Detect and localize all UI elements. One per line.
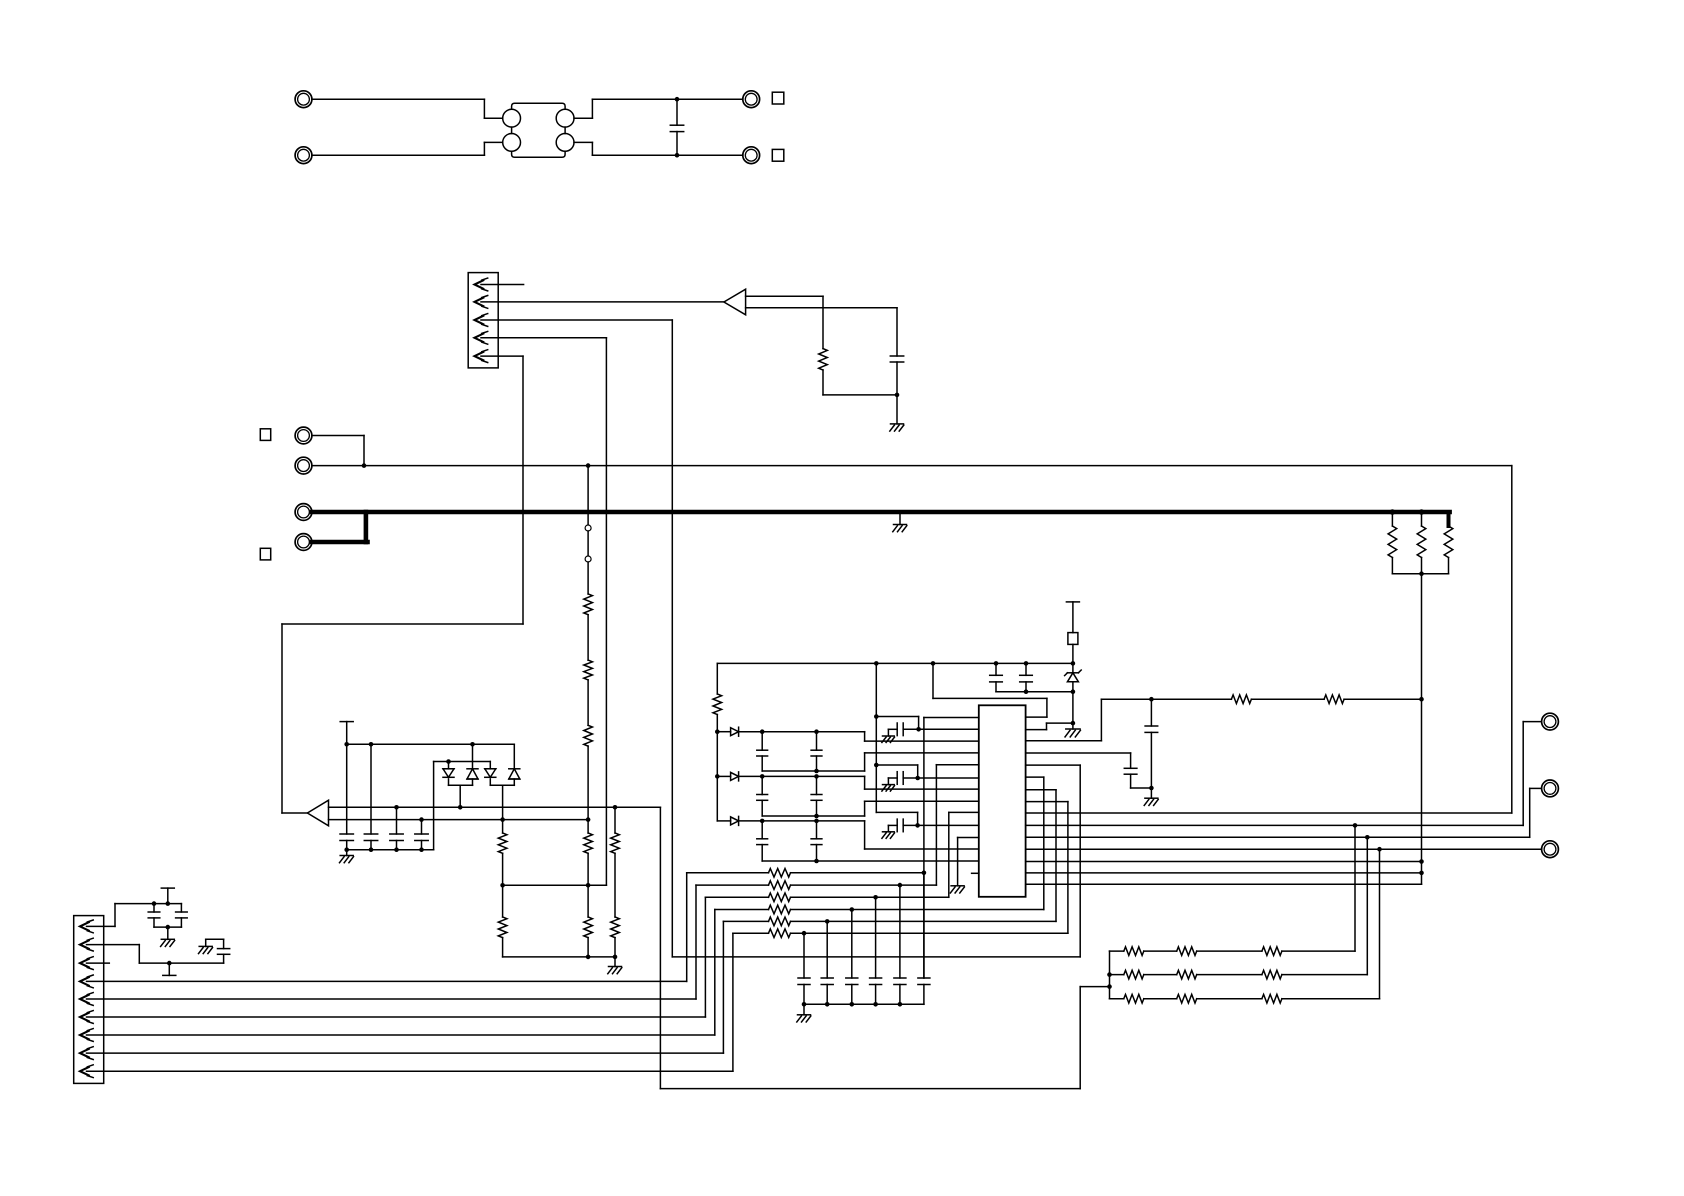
resistor R52b: [1144, 994, 1197, 1003]
capacitor CA: [811, 732, 822, 771]
rail wire: [347, 743, 515, 745]
node: [1149, 786, 1154, 791]
wire: [370, 841, 372, 850]
resistor R51b: [1144, 970, 1197, 979]
capacitor C11: [340, 834, 353, 841]
connector terminal J2-1: [743, 91, 760, 108]
wire: [1026, 753, 1131, 768]
node: [1365, 835, 1370, 840]
node: [470, 742, 475, 747]
node: [166, 901, 171, 906]
jumper circle: [585, 556, 591, 562]
ground: [882, 736, 895, 743]
resistor R20: [1388, 526, 1397, 558]
wire: [903, 728, 918, 730]
wire: [865, 776, 979, 789]
wire: [346, 850, 348, 856]
node: [458, 805, 463, 810]
wire: [346, 744, 348, 834]
resistor R51a: [1110, 970, 1144, 979]
connector terminal J4-2: [295, 534, 312, 551]
resistor R21: [1417, 526, 1426, 558]
node: [1353, 823, 1358, 828]
wire: [489, 779, 491, 785]
node: [825, 1002, 830, 1007]
wire row2: [791, 765, 979, 885]
capacitor C3x: [821, 921, 833, 1004]
resistor R31: [687, 869, 791, 878]
pin arrow: [475, 296, 488, 309]
wire: [919, 728, 979, 730]
node: [152, 901, 157, 906]
wire: [614, 957, 616, 967]
pin arrow: [80, 938, 93, 951]
wire: [1421, 558, 1423, 574]
node: [1377, 847, 1382, 852]
wire: [1523, 722, 1541, 826]
capacitor C42: [897, 772, 903, 785]
wire: [739, 775, 865, 777]
resistor R15: [584, 833, 593, 853]
node: [613, 955, 618, 960]
wire: [154, 926, 181, 928]
resistor R32: [696, 881, 791, 890]
node: [1149, 697, 1154, 702]
wire: [903, 824, 917, 826]
wire: [803, 1004, 805, 1015]
pad square: [260, 429, 270, 441]
wire: [587, 615, 589, 660]
node: [915, 776, 920, 781]
wire: [1421, 512, 1423, 526]
wire: [472, 779, 474, 785]
wire: [433, 762, 435, 850]
ground: [950, 886, 964, 893]
ground: [797, 1015, 811, 1022]
resistor R52c: [1197, 994, 1282, 1003]
wire: [918, 824, 979, 826]
rail wire: [762, 860, 979, 862]
capacitor C3x: [894, 885, 906, 1004]
pin arrow: [80, 957, 93, 970]
capacitor C62: [1124, 768, 1137, 774]
wire: [167, 927, 169, 939]
capacitor C1: [670, 99, 683, 155]
capacitor C43: [897, 819, 903, 832]
wire: [865, 732, 979, 741]
common-mode choke L1: [503, 103, 574, 157]
node: [814, 769, 819, 774]
resistor R10: [819, 349, 828, 370]
wire: [587, 938, 589, 957]
wire: [823, 394, 897, 396]
wire: [448, 779, 450, 785]
wire: [1391, 512, 1393, 526]
wire row6: [791, 802, 1068, 934]
capacitor C41: [897, 723, 903, 736]
node: [1107, 972, 1112, 977]
resistor R50c: [1197, 947, 1282, 956]
capacitor C22: [176, 904, 188, 928]
wire: [918, 777, 979, 779]
wire: [716, 732, 718, 777]
wire: [574, 142, 743, 155]
power rail: [340, 722, 353, 745]
jumper circle: [585, 525, 591, 531]
capacitor C13: [390, 834, 403, 841]
resistor R33: [705, 893, 790, 902]
node: [873, 1002, 878, 1007]
wire gnd route: [1026, 692, 1073, 730]
ground: [340, 856, 354, 863]
node: [1107, 984, 1112, 989]
wire: [502, 785, 504, 819]
wire: [449, 784, 473, 786]
wire: [888, 778, 897, 785]
node: [369, 847, 374, 852]
thick wire: [312, 510, 1450, 515]
rail wire: [762, 801, 979, 816]
wire CN1-3: [481, 320, 672, 957]
wire: [739, 820, 865, 822]
node: [715, 729, 720, 734]
wire: [717, 731, 730, 733]
rail wire: [876, 765, 917, 778]
node: [760, 774, 765, 779]
node: [1419, 509, 1425, 515]
wire: [822, 370, 824, 395]
wire: [865, 821, 979, 849]
wire: [746, 308, 897, 356]
node: [1071, 721, 1076, 726]
pin arrow: [475, 314, 488, 327]
resistor R6: [584, 660, 593, 680]
node: [446, 759, 451, 764]
node: [850, 907, 855, 912]
wire: [716, 715, 718, 732]
wire: [513, 779, 515, 785]
thick wire: [312, 540, 368, 545]
wire CN2-3: [87, 962, 110, 964]
node: [166, 925, 171, 930]
pin arrow: [475, 331, 488, 344]
node: [1024, 661, 1029, 666]
wire: [899, 514, 901, 525]
wire: [421, 841, 423, 850]
resistor R13: [611, 833, 620, 853]
buffer U3: [307, 800, 328, 826]
capacitor C61: [1145, 699, 1158, 788]
rail wire: [762, 753, 979, 771]
node: [344, 742, 349, 747]
wire: [746, 296, 823, 348]
wire: [875, 663, 877, 812]
wire: [614, 807, 616, 833]
resistor R50b: [1144, 947, 1197, 956]
zener D20: [1065, 663, 1082, 691]
wire: [1026, 883, 1422, 885]
wire: [933, 663, 1047, 717]
connector terminal J5-3: [1542, 841, 1559, 858]
wire: [490, 784, 514, 786]
node: [586, 463, 591, 468]
wire row5: [791, 790, 1057, 922]
resistor R12: [498, 917, 507, 938]
power+fuse: [1066, 602, 1079, 664]
node: [1071, 661, 1076, 666]
node: [895, 393, 900, 398]
resistor R36: [733, 929, 791, 938]
diode D1: [443, 769, 454, 778]
node: [802, 1002, 807, 1007]
ground: [893, 525, 907, 532]
capacitor CC: [757, 821, 768, 861]
pin arrow: [80, 920, 93, 933]
node: [586, 955, 591, 960]
wire: [312, 142, 503, 155]
node: [586, 883, 591, 888]
wire: [396, 807, 398, 834]
wire: [888, 825, 897, 831]
wire: [1026, 836, 1530, 838]
wire CN2-1: [87, 904, 182, 927]
node: [814, 814, 819, 819]
node: [850, 1002, 855, 1007]
node: [922, 871, 927, 876]
power tap: [163, 963, 176, 975]
wire: [459, 785, 461, 807]
wire: [587, 531, 589, 556]
wire: [804, 1003, 924, 1005]
wire: [888, 729, 897, 736]
wire: [502, 885, 504, 917]
node: [1390, 509, 1396, 515]
connector terminal J3-1: [295, 427, 312, 444]
capacitor CB: [811, 776, 822, 816]
pin arrow: [80, 1029, 93, 1042]
connector CN1: [468, 273, 498, 368]
node: [1419, 859, 1424, 864]
node: [825, 919, 830, 924]
wire stub: [972, 872, 979, 874]
wire: [421, 820, 423, 834]
wire: [717, 775, 730, 777]
node: [419, 847, 424, 852]
wire: [1251, 698, 1324, 700]
pin arrow: [80, 1047, 93, 1060]
pad square: [260, 548, 270, 560]
node: [814, 729, 819, 734]
capacitor C3x: [798, 933, 810, 1004]
wire: [502, 938, 504, 957]
wire: [1344, 698, 1421, 700]
node: [760, 729, 765, 734]
connector terminal J5-1: [1542, 713, 1559, 730]
wire: [347, 849, 434, 851]
capacitor C12: [364, 834, 377, 841]
wire: [739, 731, 865, 733]
resistor R16: [584, 917, 593, 938]
node: [500, 817, 505, 822]
wire: [924, 718, 979, 979]
capacitor C23: [206, 939, 230, 963]
capacitor C52: [1020, 663, 1033, 691]
node: [675, 97, 680, 102]
wire: [1026, 872, 1422, 874]
diode D12: [731, 772, 739, 781]
wire: [448, 762, 450, 769]
wire: [1421, 574, 1423, 885]
resistor R5: [584, 594, 593, 615]
wire CN2-8: [87, 921, 724, 1053]
wire: [587, 853, 589, 885]
resistor R22: [1444, 526, 1453, 558]
wire: [370, 744, 372, 834]
wire row4: [791, 777, 1044, 909]
node: [898, 883, 903, 888]
wire: [1448, 558, 1450, 574]
wire mid rail: [503, 884, 607, 886]
node: [675, 153, 680, 158]
wire: [1026, 861, 1422, 863]
pin arrow: [80, 1011, 93, 1024]
wire: [1391, 558, 1393, 574]
resistor R51c: [1197, 970, 1282, 979]
node: [1419, 571, 1424, 576]
resistor R11: [498, 833, 507, 853]
resistor R50a: [1110, 947, 1144, 956]
connector terminal J3-2: [295, 457, 312, 474]
wire: [903, 777, 918, 779]
node: [362, 463, 367, 468]
ground: [890, 424, 904, 431]
IC U1: [979, 705, 1026, 897]
resistor R41: [1231, 695, 1251, 704]
pin arrow: [80, 993, 93, 1006]
wire: [489, 762, 491, 769]
node: [394, 805, 399, 810]
wire: [1282, 837, 1367, 974]
ground: [161, 939, 175, 946]
wire CN2-2: [87, 945, 224, 964]
node: [500, 883, 505, 888]
wire CN2-6: [87, 897, 706, 1017]
wire: [717, 820, 730, 822]
node: [760, 819, 765, 824]
wire row1: [791, 872, 924, 874]
node: [814, 859, 819, 864]
wire: [1282, 825, 1355, 951]
node: [915, 823, 920, 828]
wire: [1511, 466, 1513, 813]
capacitor C3x: [846, 910, 858, 1005]
buffer U2: [724, 289, 746, 315]
capacitor C3x: [870, 897, 882, 1004]
capacitor C21: [148, 904, 160, 928]
wire: [1530, 788, 1542, 837]
node: [419, 817, 424, 822]
wire: [472, 744, 474, 769]
wire: [896, 362, 898, 395]
wire: [396, 841, 398, 850]
wire: [672, 765, 1080, 957]
wire: [502, 853, 504, 885]
capacitor CB: [757, 776, 768, 816]
pin arrow: [475, 278, 488, 291]
node: [814, 819, 819, 824]
wire: [587, 466, 589, 525]
node: [613, 805, 618, 810]
wire: [1109, 951, 1111, 999]
diode D11: [731, 727, 739, 736]
wire: [896, 395, 898, 424]
rail wire: [434, 761, 491, 763]
wire: [503, 956, 615, 958]
thick wire: [364, 512, 369, 542]
wire: [502, 820, 504, 833]
wire: [958, 838, 979, 886]
wire CN2-5: [87, 885, 697, 999]
node: [873, 895, 878, 900]
wire: [1447, 512, 1451, 526]
diode D4: [509, 769, 520, 779]
wire CN1-2: [481, 301, 724, 303]
wire CN2-7: [87, 910, 715, 1036]
capacitor C2: [890, 356, 903, 362]
connector terminal J2-2: [743, 147, 760, 164]
wire: [1282, 849, 1380, 999]
wire CN2-4: [87, 873, 687, 982]
node: [874, 763, 879, 768]
rail wire: [717, 663, 1073, 694]
resistor R1: [713, 694, 722, 715]
node: [916, 727, 921, 732]
wire: [1026, 812, 1512, 814]
pad square: [772, 92, 784, 104]
connector terminal J4-1: [295, 504, 312, 521]
node: [369, 742, 374, 747]
ground: [608, 967, 622, 974]
wire thin long: [312, 465, 1512, 467]
ground: [1065, 729, 1080, 737]
wire CN1-5: [282, 356, 523, 813]
node: [874, 714, 879, 719]
bus wire top: [329, 807, 1110, 1088]
resistor R7: [584, 725, 593, 746]
pin arrow: [80, 1065, 93, 1078]
wire: [346, 841, 348, 850]
wire: [1026, 848, 1542, 850]
wire: [614, 853, 616, 917]
wire: [312, 436, 364, 466]
wire: [587, 746, 589, 820]
wire: [1131, 774, 1152, 798]
node: [898, 1002, 903, 1007]
resistor R42: [1324, 695, 1344, 704]
node: [586, 817, 591, 822]
connector terminal J1-1: [295, 91, 312, 108]
node: [1024, 689, 1029, 694]
connector CN2: [74, 916, 104, 1084]
wire: [513, 744, 515, 769]
rail wire: [876, 812, 917, 825]
ground: [1144, 798, 1158, 805]
node: [994, 661, 999, 666]
wire: [1026, 824, 1524, 826]
capacitor CC: [811, 821, 822, 861]
node: [1419, 697, 1424, 702]
diode D3: [485, 769, 496, 778]
